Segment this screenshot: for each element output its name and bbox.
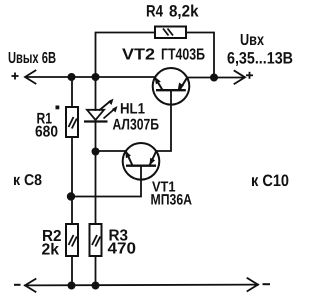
label plus left: [12, 73, 19, 80]
label minus bottom left: [14, 284, 21, 286]
svg-text:к С10: к С10: [251, 172, 289, 190]
arrow out left: [25, 71, 36, 84]
wire bottom rail: [25, 284, 258, 287]
wire input arrow stub: [214, 77, 244, 79]
label plus right: [246, 72, 253, 79]
resistor R4: [155, 27, 186, 39]
label minus bottom right: [263, 283, 271, 285]
node dot rail R3: [92, 282, 100, 290]
svg-text:Uвых 6В: Uвых 6В: [8, 50, 56, 67]
wire VT1 base: [72, 166, 141, 197]
svg-text:к С8: к С8: [13, 172, 42, 189]
node dot rail R2: [68, 282, 76, 290]
arrow bottom right: [248, 278, 259, 291]
svg-text:8,2k: 8,2k: [169, 3, 199, 21]
node dot input: [210, 74, 218, 82]
svg-text:Uвх: Uвх: [240, 32, 264, 49]
arrow bottom left: [25, 279, 36, 292]
wire R1 to base node: [71, 137, 73, 224]
wire VT1 collector to VT2 base: [156, 90, 171, 151]
svg-text:2k: 2k: [42, 242, 60, 259]
wire LED branch down: [95, 77, 97, 110]
svg-text:АЛ307Б: АЛ307Б: [113, 117, 160, 134]
resistor R3: [90, 224, 102, 256]
wire node to R3: [95, 152, 97, 225]
svg-text:R4: R4: [146, 3, 164, 21]
node dot output/R1: [68, 73, 76, 81]
svg-text:VT2: VT2: [122, 47, 155, 64]
transistor VT2: [153, 68, 190, 105]
wire VT2 emitter to node: [187, 77, 214, 79]
wire top output rail: [26, 76, 155, 78]
node dot LED/VT1 emitter: [92, 148, 100, 156]
wire R4 branch up: [96, 33, 156, 78]
resistor R2: [66, 224, 78, 256]
label R1 asterisk: [56, 106, 60, 110]
wire VT1 emitter: [96, 150, 126, 152]
svg-text:470: 470: [108, 241, 137, 258]
arrow in right: [235, 71, 246, 84]
wire LED cathode to node: [95, 122, 97, 152]
svg-text:HL1: HL1: [120, 101, 145, 118]
svg-text:МП36А: МП36А: [151, 192, 193, 209]
node dot R1/R2/base: [67, 192, 75, 200]
node dot output/LED: [92, 73, 100, 81]
svg-text:ГТ403Б: ГТ403Б: [161, 47, 205, 64]
svg-text:680: 680: [35, 124, 58, 141]
transistor VT1: [123, 143, 160, 180]
wire R3 to bottom rail: [95, 256, 97, 285]
wire R2 to bottom rail: [71, 256, 73, 286]
wire R1 branch: [71, 77, 73, 107]
svg-text:6,35...13В: 6,35...13В: [227, 50, 293, 68]
resistor R1: [66, 107, 78, 137]
wire R4 to input node: [186, 33, 214, 78]
LED HL1: [84, 99, 118, 122]
